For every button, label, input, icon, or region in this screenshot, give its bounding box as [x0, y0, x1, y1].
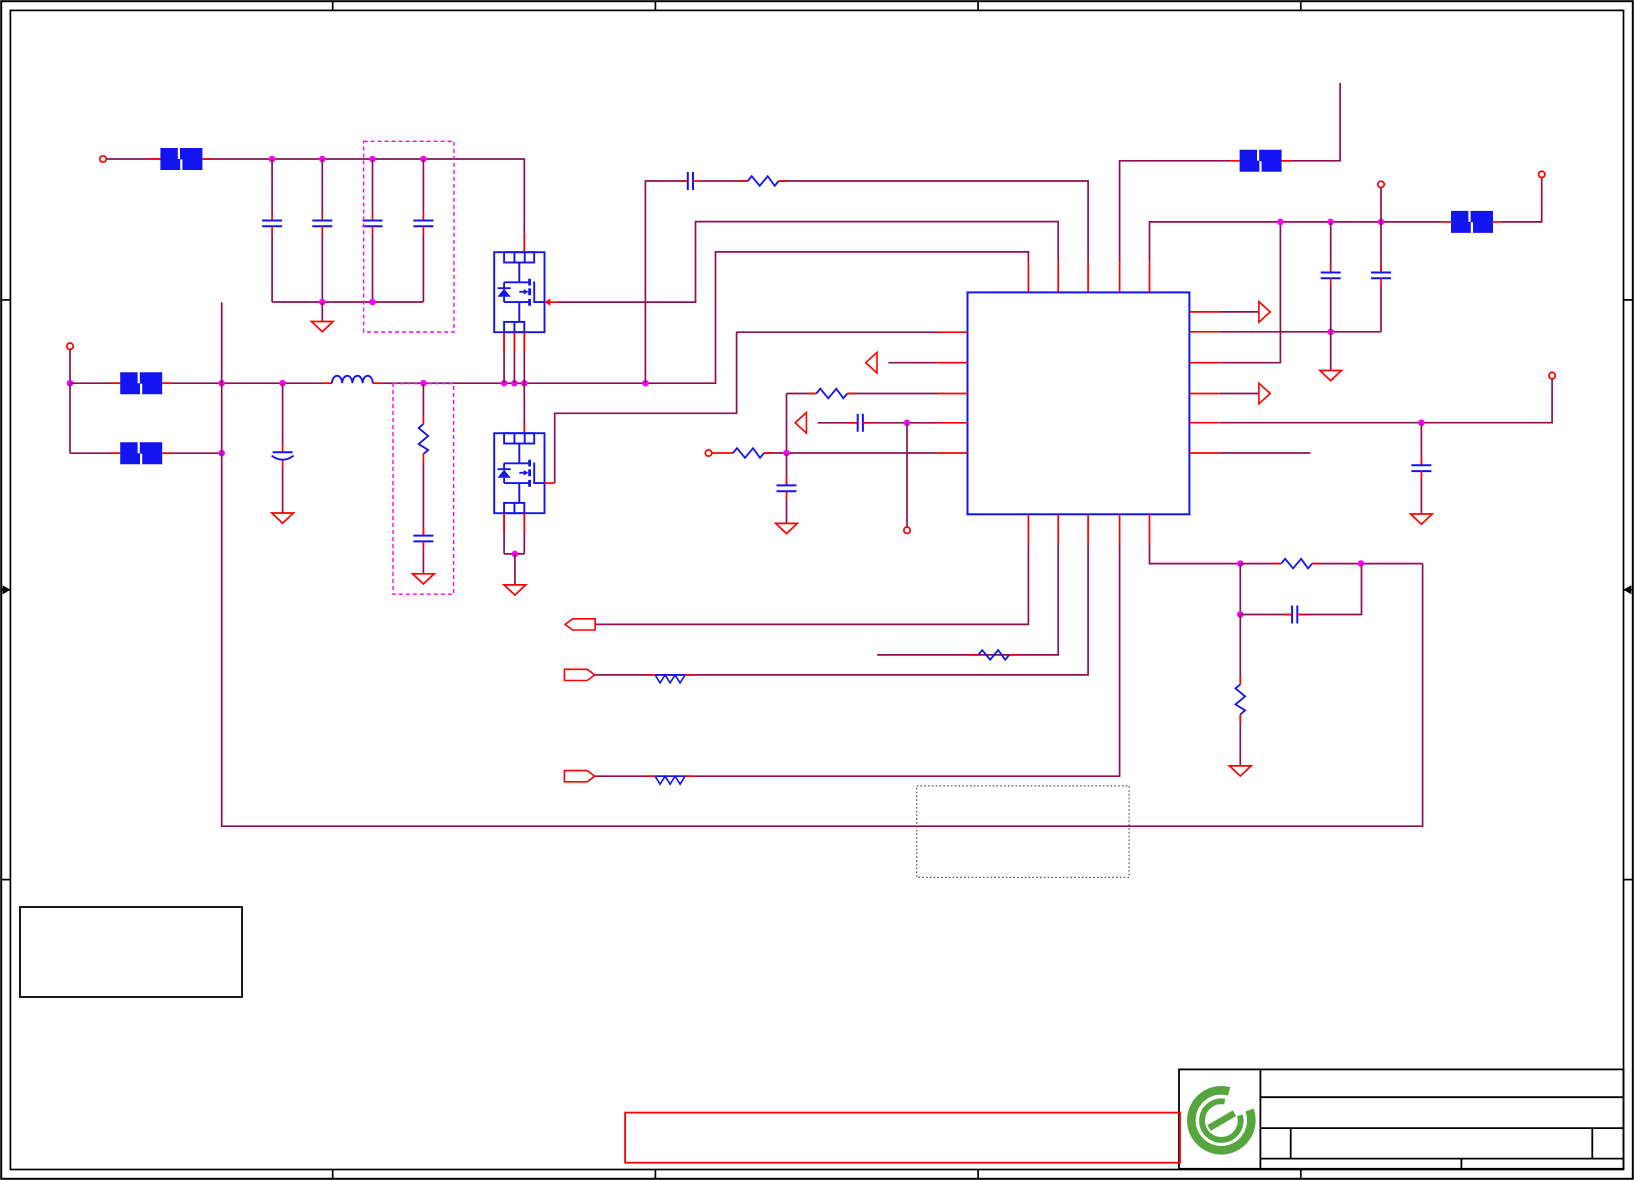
notes box bottom-left	[20, 907, 242, 997]
terminal P5	[1549, 372, 1555, 378]
resistor R8	[1240, 563, 1281, 565]
wire U1 bottom pin 3 to port SCL	[595, 545, 1088, 675]
node VIN junction 4	[420, 156, 427, 163]
IC U1	[968, 292, 1190, 514]
wire bias rail	[1280, 221, 1441, 223]
company logo	[1191, 1090, 1251, 1150]
resistor R4	[712, 452, 733, 454]
transistor Q1 (high-side MOSFET)	[494, 252, 544, 332]
wire R4 to IC	[764, 452, 937, 454]
wire P2 node to F2	[70, 382, 120, 384]
junction bias 2	[1327, 219, 1334, 226]
zone tick top 2	[654, 1, 656, 10]
zone tick left 1	[1, 299, 10, 301]
inductor L1	[332, 376, 373, 383]
wire U1 bottom pin 4 to port SDA	[595, 545, 1120, 777]
wire F1 to MOSFET Q1 drain rail	[202, 159, 524, 252]
junction P2 node	[67, 380, 74, 387]
zone tick bottom 1	[332, 1170, 334, 1179]
output arrow U1 right pin 4	[1220, 393, 1259, 395]
terminal P1 (top-left input)	[100, 156, 106, 162]
wire U1 right pin 5 to terminal	[1220, 379, 1552, 423]
capacitor C7 (RC to IC)	[688, 172, 693, 190]
junction FB node 2	[1358, 560, 1365, 567]
junction C8 node	[904, 420, 911, 427]
capacitor C8	[858, 414, 863, 432]
port EN (left pointing)	[565, 619, 595, 630]
wire U1 right pin 6 stub end	[1220, 452, 1311, 454]
resistor R2	[748, 176, 779, 186]
terminal P2 (mid-left input)	[67, 343, 73, 349]
Q2 source stubs	[503, 513, 505, 554]
junction node A	[218, 450, 225, 457]
wire U1 top pin 5 to bias rail	[1150, 222, 1281, 263]
zone tick bottom 4	[1300, 1170, 1302, 1179]
capacitor C4	[422, 159, 424, 213]
wire R2 to IC pin	[779, 181, 1088, 262]
node VIN junction 3	[369, 156, 376, 163]
junction bias 3	[1378, 219, 1385, 226]
junction FB node 3	[1237, 611, 1244, 618]
wire F2 to inductor L1	[162, 382, 332, 384]
resistor R6	[647, 674, 655, 676]
wire P6 down	[1380, 188, 1382, 222]
junction RC tap	[642, 380, 649, 387]
wire FB lower branch	[1239, 564, 1241, 615]
zone tick bottom 3	[977, 1170, 979, 1179]
Q1 gate arrow	[545, 298, 551, 305]
terminal P3	[904, 527, 910, 533]
capacitor C1	[271, 159, 273, 213]
dashed group box DNP1	[364, 141, 454, 332]
output arrow U1 right pin 1	[1220, 311, 1259, 313]
ground GND8	[1230, 766, 1252, 776]
ground GND7	[1411, 514, 1433, 524]
capacitor C3	[372, 159, 374, 213]
junction C5 tap	[279, 380, 286, 387]
port SCL (right pointing)	[564, 669, 594, 680]
zone mid arrow left	[1, 589, 10, 591]
wire R1 to C6	[422, 454, 424, 462]
wire P2 branch down to F3	[69, 383, 71, 453]
title block outline	[1179, 1069, 1624, 1168]
junction FB node 1	[1237, 560, 1244, 567]
wire gate1 from Q1 to IC	[558, 222, 1058, 303]
wire R8 to output node	[1312, 563, 1423, 565]
wire bus to ground	[321, 302, 323, 322]
terminal P7	[1539, 171, 1545, 177]
wire long left bus vertical	[222, 302, 1423, 826]
junction on bus 1	[319, 299, 326, 306]
zone tick bottom 2	[654, 1170, 656, 1179]
junction rail-bus node	[218, 380, 225, 387]
wire capacitor ground bus	[272, 301, 423, 303]
resistor R3 on FB pin	[787, 393, 817, 395]
zone tick top 4	[1300, 1, 1302, 10]
resistor R7	[647, 775, 655, 777]
dotted annotation box	[917, 786, 1129, 878]
port arrow U1 left pin 2	[866, 352, 877, 373]
junction comp node	[783, 450, 790, 457]
resistor R9 (to ground)	[1239, 615, 1241, 685]
transistor Q2 (low-side MOSFET)	[494, 433, 544, 513]
wire rail to Q2 drain	[523, 383, 525, 433]
terminal P6	[1378, 181, 1384, 187]
wire U1 bottom pin 5 to feedback network	[1150, 545, 1241, 564]
port SDA (right pointing)	[564, 771, 594, 782]
fuse F4	[1240, 150, 1282, 172]
ground GND4	[504, 585, 526, 595]
zone mid arrow right	[1624, 589, 1633, 591]
U1 bottom pin stubs	[1028, 514, 1149, 544]
junction C10 tap	[1418, 419, 1425, 426]
fuse F3	[120, 442, 162, 464]
U1 right pin stubs	[1189, 312, 1219, 453]
capacitor C2	[321, 159, 323, 213]
node VIN junction 1	[269, 156, 276, 163]
capacitor C5 (polarized)	[282, 383, 284, 444]
capacitor C11	[1330, 222, 1332, 273]
capacitor C13	[1240, 614, 1292, 616]
wire U1 right pin 2 to caps	[1220, 331, 1381, 333]
junction bias 1	[1277, 219, 1284, 226]
zone tick top 3	[977, 1, 979, 10]
ground GND1	[312, 322, 334, 332]
red annotation box bottom	[625, 1113, 1180, 1163]
junction on bus 2	[369, 299, 376, 306]
junction gnd tap	[1327, 329, 1334, 336]
ground GND3	[413, 574, 435, 584]
fuse F2	[120, 372, 162, 394]
ground GND5	[776, 523, 798, 533]
wire rail riser to RC snubber top	[645, 181, 687, 383]
Q2 gate wire	[545, 482, 555, 484]
wire F3 to node A	[162, 452, 222, 454]
wire P1 to F1	[106, 158, 160, 160]
dashed group box DNP2	[393, 384, 454, 595]
zone tick right 1	[1624, 299, 1633, 301]
zone tick left 2	[1, 879, 10, 881]
terminal P4	[705, 450, 711, 456]
wire U1 top pin 4 to fuse F4	[1120, 161, 1230, 263]
ground GND6	[1320, 371, 1342, 381]
junction Q1 source pins on rail	[501, 380, 508, 387]
zone tick right 2	[1624, 879, 1633, 881]
U1 left pin stubs	[937, 332, 968, 453]
U1 top pin stubs	[1028, 262, 1149, 292]
zone tick top 1	[332, 1, 334, 10]
resistor R5	[970, 654, 978, 656]
Q1 source stubs to rail	[503, 332, 505, 383]
capacitor C12	[1380, 222, 1382, 273]
fuse F1	[160, 148, 202, 170]
capacitor C6 (snubber)	[413, 536, 433, 542]
wire R3 branch down	[786, 394, 788, 454]
capacitor C10	[1420, 423, 1422, 466]
ground GND2	[272, 513, 294, 523]
fuse F5	[1441, 221, 1451, 223]
wire F4 up	[1282, 83, 1341, 161]
node VIN junction 2	[319, 156, 326, 163]
wire U1 bottom pin 2 to R5	[877, 545, 1058, 655]
wire P2 down	[69, 349, 71, 383]
wire U1 bottom pin 1 to port	[595, 545, 1028, 625]
junction snubber tap	[420, 380, 427, 387]
wire C7 to R2	[701, 180, 748, 182]
port arrow U1 left pin 4	[795, 413, 806, 434]
wire L1 to switch node rail	[373, 252, 1029, 383]
wire U1 right pin 3 riser	[1220, 222, 1281, 363]
capacitor C9	[786, 453, 788, 485]
junction Q2 source	[512, 551, 519, 558]
wire down to terminal P3	[906, 423, 908, 527]
wire to ground	[514, 554, 516, 585]
wire to ground	[1330, 332, 1332, 371]
wire F5 to terminal P7	[1503, 178, 1542, 222]
resistor R1 (snubber)	[422, 383, 424, 416]
